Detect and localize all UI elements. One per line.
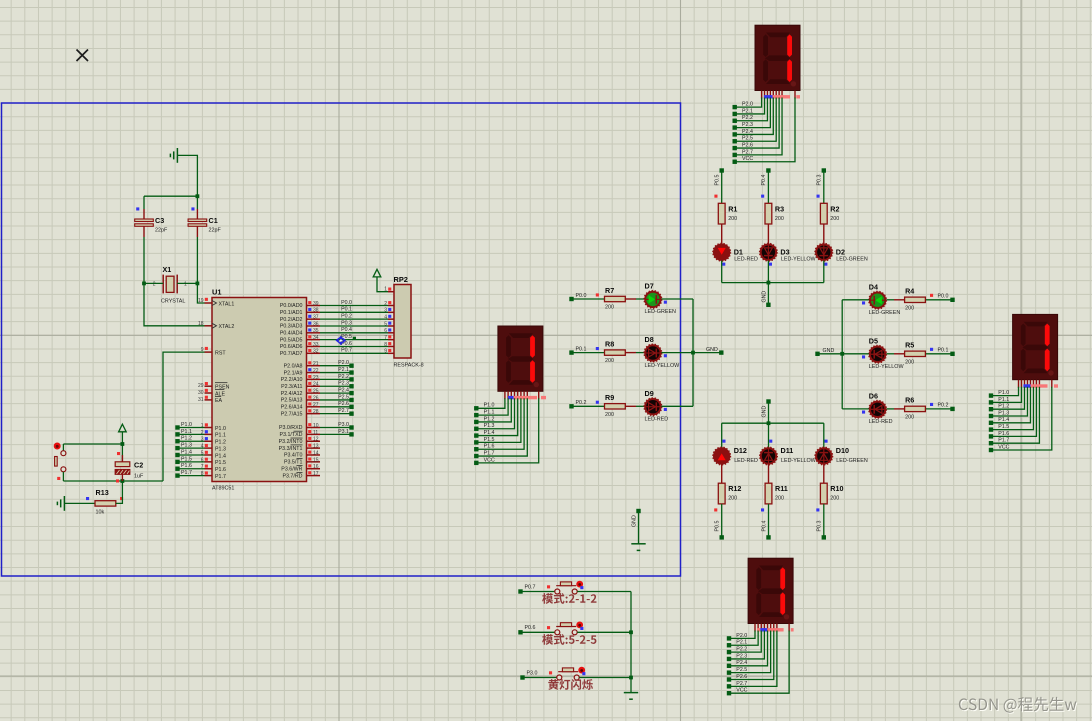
svg-text:P3.2/INT0: P3.2/INT0 <box>279 439 303 445</box>
wire P0.5 terminal to R1 <box>721 171 723 204</box>
wire P1.5 to terminal <box>179 461 205 463</box>
display DISP-W pin stubs <box>505 391 539 399</box>
svg-text:P3.1/TXD: P3.1/TXD <box>280 432 303 438</box>
svg-text:VCC: VCC <box>998 444 1009 450</box>
resistor R10 body <box>820 483 827 504</box>
wire junction to button top <box>63 443 122 445</box>
pin marker D12 top <box>722 440 725 443</box>
terminal P0.1 (west LED row) <box>569 350 573 354</box>
LED D4 (LED-GREEN, lit) <box>869 291 887 309</box>
wire P1.6 to terminal <box>179 468 205 470</box>
pin number 4 <box>201 444 208 450</box>
svg-text:R12: R12 <box>728 484 741 493</box>
svg-text:39: 39 <box>313 301 319 307</box>
svg-text:P0.2: P0.2 <box>938 403 949 409</box>
pin number 30 <box>198 389 208 396</box>
terminal P2.3 (display DISP-S) <box>727 657 731 661</box>
wire ground to corner <box>177 155 197 196</box>
U1 pin P3.2/INT0 <box>279 438 320 445</box>
terminal VCC (display DISP-W) <box>474 461 478 465</box>
svg-text:P1.1: P1.1 <box>181 429 192 435</box>
svg-text:EA: EA <box>215 398 223 404</box>
wire GND bus horizontal (south) <box>722 422 824 424</box>
svg-text:RST: RST <box>215 350 226 356</box>
svg-text:P0.4: P0.4 <box>761 175 767 186</box>
wire button P0.7 to bus <box>577 591 631 593</box>
svg-text:200: 200 <box>905 359 914 365</box>
terminal P1.3 (display DISP-W) <box>474 427 478 431</box>
pin marker button P0.7 right <box>580 586 583 589</box>
svg-text:P1.4: P1.4 <box>215 453 226 459</box>
node junction GND bus east <box>840 352 844 356</box>
origin X marker <box>77 50 89 62</box>
pin number 6 <box>201 457 208 463</box>
terminal P0.2 (east LED row) <box>950 407 954 411</box>
svg-text:C3: C3 <box>155 216 164 225</box>
pin number 16 <box>308 464 319 470</box>
pin number 33 <box>308 342 319 348</box>
svg-text:VCC: VCC <box>742 156 753 162</box>
svg-text:37: 37 <box>313 315 319 321</box>
U1 pin P2.3/A11 <box>281 384 320 390</box>
wire P2.7 to display DISP-S pin 8 <box>729 631 777 687</box>
svg-text:P0.5: P0.5 <box>715 175 721 186</box>
wire P3.1 stub <box>320 433 352 435</box>
svg-text:P1.2: P1.2 <box>998 404 1009 410</box>
display DISP-E pin stubs <box>1019 380 1052 388</box>
terminal P1.3 (display DISP-E) <box>989 414 993 418</box>
svg-text:D3: D3 <box>780 248 789 257</box>
capacitor C2 (electrolytic) <box>115 444 130 481</box>
pin number 21 <box>308 361 319 367</box>
LED D9 (LED-RED, unlit) <box>644 398 662 416</box>
U1 pin XTAL2 <box>205 323 235 330</box>
ground (buttons) <box>624 693 638 700</box>
pin number 29 <box>198 382 208 389</box>
svg-text:16: 16 <box>313 464 319 470</box>
pin number 23 <box>308 375 319 381</box>
pin marker D9 right <box>664 408 667 411</box>
wire P0.4 terminal to R3 <box>767 171 769 204</box>
RP2 pin 6 lead <box>384 328 394 334</box>
wire P0.0 terminal to R7 <box>572 298 605 300</box>
svg-text:29: 29 <box>198 383 204 389</box>
svg-text:10: 10 <box>313 423 319 429</box>
U1 pin P3.7/RD <box>282 472 320 479</box>
terminal P2.2 (U1 side) <box>349 377 353 381</box>
terminal P1.7 (display DISP-W) <box>474 454 478 458</box>
svg-text:23: 23 <box>313 375 319 381</box>
LED D2 (LED-GREEN, unlit) <box>815 243 833 261</box>
U1 pin XTAL1 <box>205 301 235 308</box>
U1 pin P0.6/AD6 <box>280 344 320 350</box>
svg-text:P2.7/A15: P2.7/A15 <box>281 411 303 417</box>
push button 黄灯闪烁 <box>557 668 579 680</box>
pin marker R13 left <box>86 497 89 500</box>
svg-text:P2.2: P2.2 <box>338 374 349 380</box>
svg-text:P1.3: P1.3 <box>998 410 1009 416</box>
svg-text:P1.7: P1.7 <box>484 450 495 456</box>
svg-text:P0.3: P0.3 <box>817 521 823 532</box>
svg-text:21: 21 <box>313 361 319 367</box>
svg-text:P3.5/T1: P3.5/T1 <box>284 460 303 466</box>
svg-text:P2.0: P2.0 <box>338 360 349 366</box>
svg-text:33: 33 <box>313 342 319 348</box>
svg-text:P1.5: P1.5 <box>484 437 495 443</box>
svg-text:LED-GREEN: LED-GREEN <box>836 458 868 464</box>
wire P2.4 to display DISP-S pin 5 <box>729 631 768 666</box>
svg-text:200: 200 <box>775 216 784 222</box>
U1 pin P2.2/A10 <box>281 377 320 383</box>
terminal P2.7 (display DISP-S) <box>727 684 731 688</box>
wire RST vertical <box>163 352 205 481</box>
terminal P0.4 (south cluster) <box>766 535 770 539</box>
svg-text:D6: D6 <box>869 392 878 401</box>
terminal P1.5 (display DISP-E) <box>989 427 993 431</box>
terminal P1.2 (display DISP-E) <box>989 407 993 411</box>
svg-text:LED-GREEN: LED-GREEN <box>869 310 901 316</box>
svg-text:C1: C1 <box>209 216 218 225</box>
pin marker R12 bottom <box>714 508 717 511</box>
svg-text:P0.4: P0.4 <box>341 327 352 333</box>
svg-text:P1.1: P1.1 <box>998 397 1009 403</box>
U1 pin P3.0/RXD <box>279 425 320 431</box>
svg-text:R7: R7 <box>605 286 614 295</box>
svg-text:13: 13 <box>313 444 319 450</box>
svg-text:P1.6: P1.6 <box>484 444 495 450</box>
svg-text:P1.1: P1.1 <box>215 433 226 439</box>
wire P2.1 stub <box>320 372 352 374</box>
pin number 27 <box>308 402 319 408</box>
wire P1.3 to terminal <box>179 447 205 449</box>
wire button P3.0 to bus <box>579 677 631 679</box>
wire R9 to D9 <box>625 405 644 407</box>
pin marker C2 bottom <box>116 479 119 482</box>
wire P0.2 bus U1 to RP2 <box>320 318 388 320</box>
U1 pin P1.2 <box>205 440 226 446</box>
wire D10 to R10 <box>823 464 825 483</box>
wire P1.6 to display DISP-W pin 7 <box>476 398 524 449</box>
terminal P1.1 (display DISP-W) <box>474 413 478 417</box>
watermark CSDN <box>959 697 1078 714</box>
wire C3 top lead <box>143 196 145 209</box>
resistor R1 body <box>718 203 725 224</box>
display DISP-N pin stubs <box>762 91 795 99</box>
pin marker R7 left <box>596 293 599 296</box>
pin number 2 <box>201 430 208 436</box>
wire GND bus vertical (west) <box>692 299 694 406</box>
resistor R12 body <box>718 483 725 504</box>
wire button bus vertical <box>630 592 632 693</box>
wire P0.3 terminal to R2 <box>823 171 825 204</box>
svg-text:P2.3/A11: P2.3/A11 <box>281 384 302 390</box>
pin number 3 <box>201 437 208 443</box>
svg-text:CRYSTAL: CRYSTAL <box>161 299 185 305</box>
wire fragment near cursor <box>353 337 356 339</box>
wire DISP-E common pin to VCC row <box>991 387 1052 450</box>
terminal P2.7 (display DISP-N) <box>733 153 737 157</box>
svg-text:P0.0: P0.0 <box>938 294 949 300</box>
wire junction to C3 column <box>144 195 197 197</box>
wire P2.7 stub <box>320 413 352 415</box>
terminal P0.2 (west LED row) <box>569 404 573 408</box>
wire P2.2 to display DISP-S pin 3 <box>729 631 761 653</box>
selection rectangle <box>2 103 681 576</box>
wire GND terminal to junction (east) <box>818 353 843 355</box>
wire P0.0 bus U1 to RP2 <box>320 305 388 307</box>
svg-text:GND: GND <box>823 348 835 354</box>
terminal P2.1 (display DISP-S) <box>727 643 731 647</box>
svg-text:P1.2: P1.2 <box>181 436 192 442</box>
wire P1.0 to display DISP-W pin 1 <box>476 398 505 408</box>
svg-text:1: 1 <box>384 287 387 293</box>
LED D6 (LED-RED, unlit) <box>869 400 887 418</box>
resistor R3 body <box>765 203 772 224</box>
pin marker D4 left <box>862 301 865 304</box>
svg-text:P2.1: P2.1 <box>742 108 753 114</box>
svg-text:P2.4/A12: P2.4/A12 <box>281 391 303 397</box>
power arrow VCC (reset circuit) <box>119 424 127 432</box>
svg-text:34: 34 <box>313 335 319 341</box>
pin number 1 <box>201 423 208 429</box>
wire P1.1 to terminal <box>179 433 205 435</box>
svg-text:200: 200 <box>905 305 914 311</box>
U1 pin P1.5 <box>205 460 226 466</box>
wire P0.7 bus U1 to RP2 <box>320 352 388 354</box>
svg-text:C2: C2 <box>134 461 143 470</box>
terminal P0.7 (button row) <box>518 589 522 593</box>
svg-text:R9: R9 <box>605 393 614 402</box>
LED D3 (LED-YELLOW, unlit) <box>760 243 778 261</box>
U1 pin P1.7 <box>205 474 226 480</box>
pin marker R1 top <box>714 195 717 198</box>
wire P1.7 to terminal <box>179 475 205 477</box>
pin marker D3 bottom <box>769 263 772 266</box>
svg-text:28: 28 <box>313 409 319 415</box>
pin marker C1 <box>191 207 194 210</box>
U1 pin P2.7/A15 <box>281 411 320 417</box>
svg-text:32: 32 <box>313 349 319 355</box>
terminal P3.1 (U1 side) <box>349 432 353 436</box>
svg-text:GND: GND <box>631 515 637 527</box>
wire P0.0 terminal to R4 <box>925 299 952 301</box>
pin number 8 <box>201 471 208 477</box>
wire DISP-S common pin to VCC row <box>729 631 789 694</box>
display DISP-S pin stubs <box>755 624 789 632</box>
svg-text:P0.5: P0.5 <box>715 521 721 532</box>
LED D7 (LED-GREEN, lit) <box>644 291 662 309</box>
svg-text:P0.0/AD0: P0.0/AD0 <box>280 303 303 309</box>
svg-text:P3.0: P3.0 <box>338 422 349 428</box>
wire P1.2 to terminal <box>179 440 205 442</box>
7-segment display DISP-W body <box>498 326 543 391</box>
svg-text:GND: GND <box>706 347 718 353</box>
LED D12 (LED-RED, lit) <box>713 447 731 465</box>
wire ground to R13 <box>64 502 95 504</box>
button actuator (red) P0.7 <box>576 581 583 588</box>
LED D8 (LED-YELLOW, unlit) <box>644 344 662 362</box>
wire C1 to crystal junction <box>196 237 198 283</box>
terminal P0.0 (west LED row) <box>569 297 573 301</box>
pin marker R3 top <box>761 195 764 198</box>
svg-text:RESPACK-8: RESPACK-8 <box>394 363 424 369</box>
svg-text:35: 35 <box>313 328 319 334</box>
svg-text:P2.6: P2.6 <box>338 401 349 407</box>
resistor R13 body <box>95 501 116 506</box>
U1 pin P3.1/TXD <box>280 431 320 438</box>
svg-text:P1.2: P1.2 <box>484 416 495 422</box>
svg-text:R2: R2 <box>830 204 839 213</box>
LED D10 (LED-GREEN, unlit) <box>815 447 833 465</box>
terminal VCC (display DISP-S) <box>727 691 731 695</box>
svg-text:15: 15 <box>313 457 319 463</box>
svg-text:P1.3: P1.3 <box>181 443 192 449</box>
terminal P0.6 (button row) <box>518 630 522 634</box>
U1 pin PSEN <box>205 383 230 391</box>
terminal P1.5 (display DISP-W) <box>474 440 478 444</box>
LED D1 (LED-RED, lit) <box>713 243 731 261</box>
wire GND bus to D12 <box>721 423 723 447</box>
U1 pin P1.3 <box>205 446 226 452</box>
svg-text:R11: R11 <box>775 484 788 493</box>
pin marker D8 right <box>664 354 667 357</box>
wire GND bus to D10 <box>823 423 825 447</box>
pin marker D1 bottom <box>722 263 725 266</box>
svg-text:P1.4: P1.4 <box>181 449 192 455</box>
wire P1.4 to terminal <box>179 454 205 456</box>
terminal P2.4 (display DISP-S) <box>727 664 731 668</box>
wire D9 to GND bus <box>661 405 693 407</box>
pin marker R2 top <box>817 195 820 198</box>
wire P1.6 to display DISP-E pin 7 <box>991 387 1036 437</box>
svg-text:LED-RED: LED-RED <box>869 419 893 425</box>
svg-text:12: 12 <box>313 437 319 443</box>
wire R1 to D1 <box>721 224 723 244</box>
node junction GND bus south <box>767 421 771 425</box>
wire crystal left lead <box>144 282 163 284</box>
pin number 35 <box>308 328 319 334</box>
wire D2 to GND bus (north) <box>823 261 825 283</box>
terminal P3.0 (U1 side) <box>349 425 353 429</box>
terminal P0.1 (east LED row) <box>950 352 954 356</box>
svg-text:P1.1: P1.1 <box>484 410 495 416</box>
wire P3.0 terminal to button <box>523 677 557 679</box>
wire DISP-W common pin to VCC row <box>476 398 538 463</box>
terminal P0.3 (south cluster) <box>822 535 826 539</box>
svg-text:P2.3: P2.3 <box>742 122 753 128</box>
svg-text:P0.1: P0.1 <box>938 348 949 354</box>
svg-text:17: 17 <box>313 471 319 477</box>
wire P2.5 to display DISP-N pin 6 <box>735 98 777 142</box>
wire R12 to terminal P0.5 <box>721 504 723 538</box>
ground (R13, rotated) <box>57 496 64 511</box>
svg-text:P2.7: P2.7 <box>736 681 747 687</box>
terminal GND (center) <box>636 509 640 513</box>
svg-text:P1.7: P1.7 <box>215 474 226 480</box>
svg-text:P0.5/AD5: P0.5/AD5 <box>280 337 303 343</box>
wire R3 to D3 <box>767 224 769 244</box>
U1 pin P3.5/T1 <box>284 459 320 466</box>
svg-text:X1: X1 <box>163 265 172 274</box>
wire R4 to D4 <box>886 299 904 301</box>
svg-text:R13: R13 <box>96 488 109 497</box>
terminal P0.0 (east LED row) <box>950 298 954 302</box>
display DISP-N pin state markers <box>764 95 800 98</box>
terminal P2.7 (U1 side) <box>349 411 353 415</box>
terminal P1.4 (display DISP-E) <box>989 421 993 425</box>
pin number 25 <box>308 389 319 395</box>
svg-text:P2.6: P2.6 <box>742 142 753 148</box>
svg-text:P0.0: P0.0 <box>341 300 352 306</box>
wire to XTAL2 <box>144 283 205 325</box>
pin number 37 <box>308 315 319 321</box>
wire GND bus horizontal (north) <box>722 282 824 284</box>
svg-text:LED-RED: LED-RED <box>734 458 758 464</box>
terminal P0.3 (north cluster) <box>822 168 826 172</box>
U1 pin P3.3/INT1 <box>279 445 320 452</box>
wire P2.3 stub <box>320 385 352 387</box>
pin number 13 <box>308 444 319 450</box>
svg-text:P1.6: P1.6 <box>998 431 1009 437</box>
terminal P2.5 (U1 side) <box>349 398 353 402</box>
mouse cursor (move) <box>335 336 346 346</box>
svg-text:LED-YELLOW: LED-YELLOW <box>645 363 681 369</box>
wire D8 to GND bus <box>661 352 693 354</box>
svg-text:R4: R4 <box>905 287 914 296</box>
pin number 31 <box>198 396 208 403</box>
display DISP-E pin state markers <box>1023 384 1058 387</box>
pin number 15 <box>308 457 319 463</box>
pin number 12 <box>308 437 319 443</box>
label 模式:2-1-2 <box>542 593 596 604</box>
svg-text:P1.7: P1.7 <box>181 470 192 476</box>
terminal P2.3 (display DISP-N) <box>733 125 737 129</box>
svg-text:200: 200 <box>605 358 614 364</box>
wire crystal right lead <box>177 282 197 284</box>
wire P2.0 to display DISP-S pin 1 <box>729 631 755 639</box>
7-segment display DISP-E body <box>1013 314 1058 379</box>
svg-text:D8: D8 <box>645 335 654 344</box>
svg-text:P0.3: P0.3 <box>817 175 823 186</box>
pin number 34 <box>308 335 319 341</box>
terminal P1.6 (U1 side) <box>175 467 179 471</box>
terminal VCC (display DISP-N) <box>733 160 737 164</box>
terminal P3.0 (button row) <box>520 675 524 679</box>
svg-text:P1.0: P1.0 <box>484 403 495 409</box>
svg-text:P2.2: P2.2 <box>736 647 747 653</box>
svg-text:P1.3: P1.3 <box>215 446 226 452</box>
wire D4 to GND bus (east) <box>842 299 869 301</box>
svg-text:P3.6/WR: P3.6/WR <box>281 466 302 472</box>
wire P2.1 to display DISP-N pin 2 <box>735 98 765 114</box>
svg-text:LED-YELLOW: LED-YELLOW <box>781 458 817 464</box>
wire D7 to GND bus <box>661 298 693 300</box>
terminal P0.4 (north cluster) <box>766 168 770 172</box>
pin marker C2 top <box>117 452 120 455</box>
terminal GND (east) <box>815 352 819 356</box>
U1 pin P1.0 <box>205 426 226 432</box>
svg-text:38: 38 <box>313 308 319 314</box>
svg-text:P2.5: P2.5 <box>338 394 349 400</box>
svg-text:R10: R10 <box>830 484 843 493</box>
wire junction to GND terminal (north) <box>767 283 769 304</box>
svg-text:D4: D4 <box>869 282 878 291</box>
pin marker R11 bottom <box>761 508 764 511</box>
terminal GND (north) <box>766 303 770 307</box>
7-segment display DISP-N body <box>755 25 800 90</box>
wire D3 to GND bus (north) <box>767 261 769 283</box>
wire P2.5 stub <box>320 399 352 401</box>
